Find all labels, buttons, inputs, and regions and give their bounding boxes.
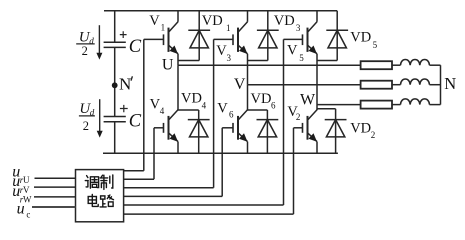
node label W (300, 92, 316, 109)
svg-text:5: 5 (299, 53, 304, 63)
diode VD5 (326, 11, 348, 61)
diode VD6 (257, 110, 279, 153)
wire gate V3 (213, 39, 215, 187)
wire phase V output (248, 84, 361, 86)
resistor W phase (361, 101, 392, 109)
wire input u_c (32, 206, 76, 208)
wire V resistor to inductor (392, 84, 401, 86)
svg-text:C: C (129, 37, 142, 57)
label V4 (150, 97, 165, 116)
inductor U phase (401, 60, 430, 66)
node label U (162, 56, 174, 73)
label V2 (287, 104, 300, 122)
wire modulator output 6 (124, 213, 294, 215)
svg-text:5: 5 (373, 40, 378, 50)
resistor U phase (361, 61, 392, 69)
capacitor C (upper) (104, 42, 126, 47)
label u_rV (12, 173, 30, 195)
wire collector-diode junction leg1 bottom (178, 109, 199, 111)
svg-text:2: 2 (83, 119, 89, 133)
label VD5 (350, 30, 377, 50)
wire gate V4 (153, 128, 155, 179)
transistor V3 (214, 11, 248, 85)
wire gate V5 (283, 39, 285, 205)
text 调制 电路 (modulation circuit) (85, 175, 113, 207)
node N' (112, 82, 118, 88)
label V5 (287, 42, 304, 63)
modulator box U1 (76, 170, 124, 222)
label VD3 (274, 13, 301, 33)
label u_rW (12, 183, 32, 205)
svg-text:2: 2 (82, 44, 88, 58)
svg-text:2: 2 (296, 112, 301, 122)
voltage arrow Ud/2 (upper) (96, 25, 102, 59)
svg-text:VD: VD (350, 30, 371, 46)
label VD1 (202, 13, 231, 33)
label VD4 (181, 91, 207, 111)
wire modulator output 5 (124, 204, 284, 206)
label VD2 (350, 121, 375, 140)
svg-text:4: 4 (202, 100, 207, 110)
node label N' (119, 74, 131, 93)
transistor V5 (284, 11, 318, 105)
wire gate V1 (143, 39, 145, 170)
wire phase W output (317, 104, 361, 106)
svg-text:1: 1 (161, 23, 166, 33)
wire modulator output 1 (124, 170, 144, 172)
diode VD3 (257, 11, 279, 61)
svg-text:4: 4 (160, 106, 165, 116)
svg-text:VD: VD (350, 121, 371, 137)
svg-text:2: 2 (371, 130, 376, 140)
value label C (upper) (129, 37, 142, 57)
svg-text:3: 3 (296, 23, 301, 33)
transistor V4 (154, 65, 178, 153)
wire collector-diode junction leg3 bottom (317, 108, 336, 110)
svg-text:1: 1 (226, 23, 231, 33)
transistor V1 (144, 11, 178, 65)
char 制 (100, 175, 113, 189)
label V6 (217, 100, 234, 119)
wire W resistor to inductor (392, 104, 401, 106)
diode VD2 (325, 109, 347, 153)
inductor V phase (401, 79, 430, 85)
wire input u_rW (34, 196, 76, 198)
value label Ud/2 (lower) (79, 101, 94, 133)
capacitor C (lower) (104, 117, 126, 122)
diode VD4 (188, 110, 210, 153)
label u_rU (12, 163, 30, 185)
wire modulator output 4 (124, 195, 223, 197)
svg-text:W: W (300, 92, 316, 109)
wire gate V6 (221, 128, 223, 197)
transistor V2 (294, 105, 318, 154)
svg-text:VD: VD (251, 91, 272, 107)
wire W inductor to N (429, 104, 440, 106)
value label C (lower) (129, 112, 142, 132)
wire input u_rU (35, 177, 76, 179)
svg-text:U: U (162, 56, 174, 73)
resistor V phase (361, 81, 392, 89)
label V1 (149, 13, 165, 33)
wire emitter-diode junction leg1 (178, 60, 199, 62)
char 调 (85, 176, 98, 189)
svg-text:V: V (287, 42, 298, 58)
svg-text:u: u (17, 200, 25, 217)
svg-text:6: 6 (229, 110, 234, 120)
svg-text:VD: VD (274, 13, 295, 29)
wire phase U output (178, 64, 360, 66)
node label N (444, 74, 456, 93)
plus polarity (upper capacitor) (120, 31, 127, 38)
svg-text:N: N (119, 74, 131, 93)
svg-text:6: 6 (271, 100, 276, 110)
svg-text:V: V (217, 100, 228, 116)
node label V (234, 76, 246, 93)
plus polarity (lower capacitor) (120, 105, 128, 112)
inductor W phase (401, 99, 430, 105)
svg-text:V: V (23, 185, 30, 195)
svg-text:N: N (444, 74, 456, 93)
wire U inductor to N (429, 64, 440, 66)
label u_c (17, 200, 31, 219)
svg-text:VD: VD (202, 13, 223, 29)
voltage arrow Ud/2 (lower) (97, 99, 103, 137)
label VD6 (251, 91, 277, 110)
char 电 (88, 195, 98, 207)
svg-text:VD: VD (181, 91, 202, 107)
svg-text:V: V (234, 76, 246, 93)
svg-text:U: U (23, 175, 30, 185)
wire bottom DC bus (103, 152, 338, 154)
diode VD1 (188, 11, 210, 61)
value label Ud/2 (upper) (79, 29, 94, 58)
svg-text:3: 3 (227, 53, 232, 63)
wire input u_rV (34, 186, 76, 188)
wire load neutral (440, 65, 442, 104)
wire emitter-diode junction leg3 (317, 60, 337, 62)
wire V inductor to N (429, 84, 440, 86)
wire U resistor to inductor (392, 64, 401, 66)
svg-text:V: V (149, 13, 160, 29)
wire modulator output 3 (124, 187, 214, 189)
wire modulator output 2 (124, 178, 154, 180)
label V3 (216, 43, 231, 63)
transistor V6 (222, 85, 247, 154)
svg-text:C: C (129, 112, 142, 132)
wire emitter-diode junction leg2 (248, 60, 268, 62)
svg-text:c: c (26, 210, 30, 220)
wire collector-diode junction leg2 bottom (248, 109, 268, 111)
char 路 (100, 195, 113, 207)
wire top DC bus (104, 10, 337, 12)
wire DC-link rail (114, 11, 116, 153)
wire gate V2 (293, 128, 295, 214)
